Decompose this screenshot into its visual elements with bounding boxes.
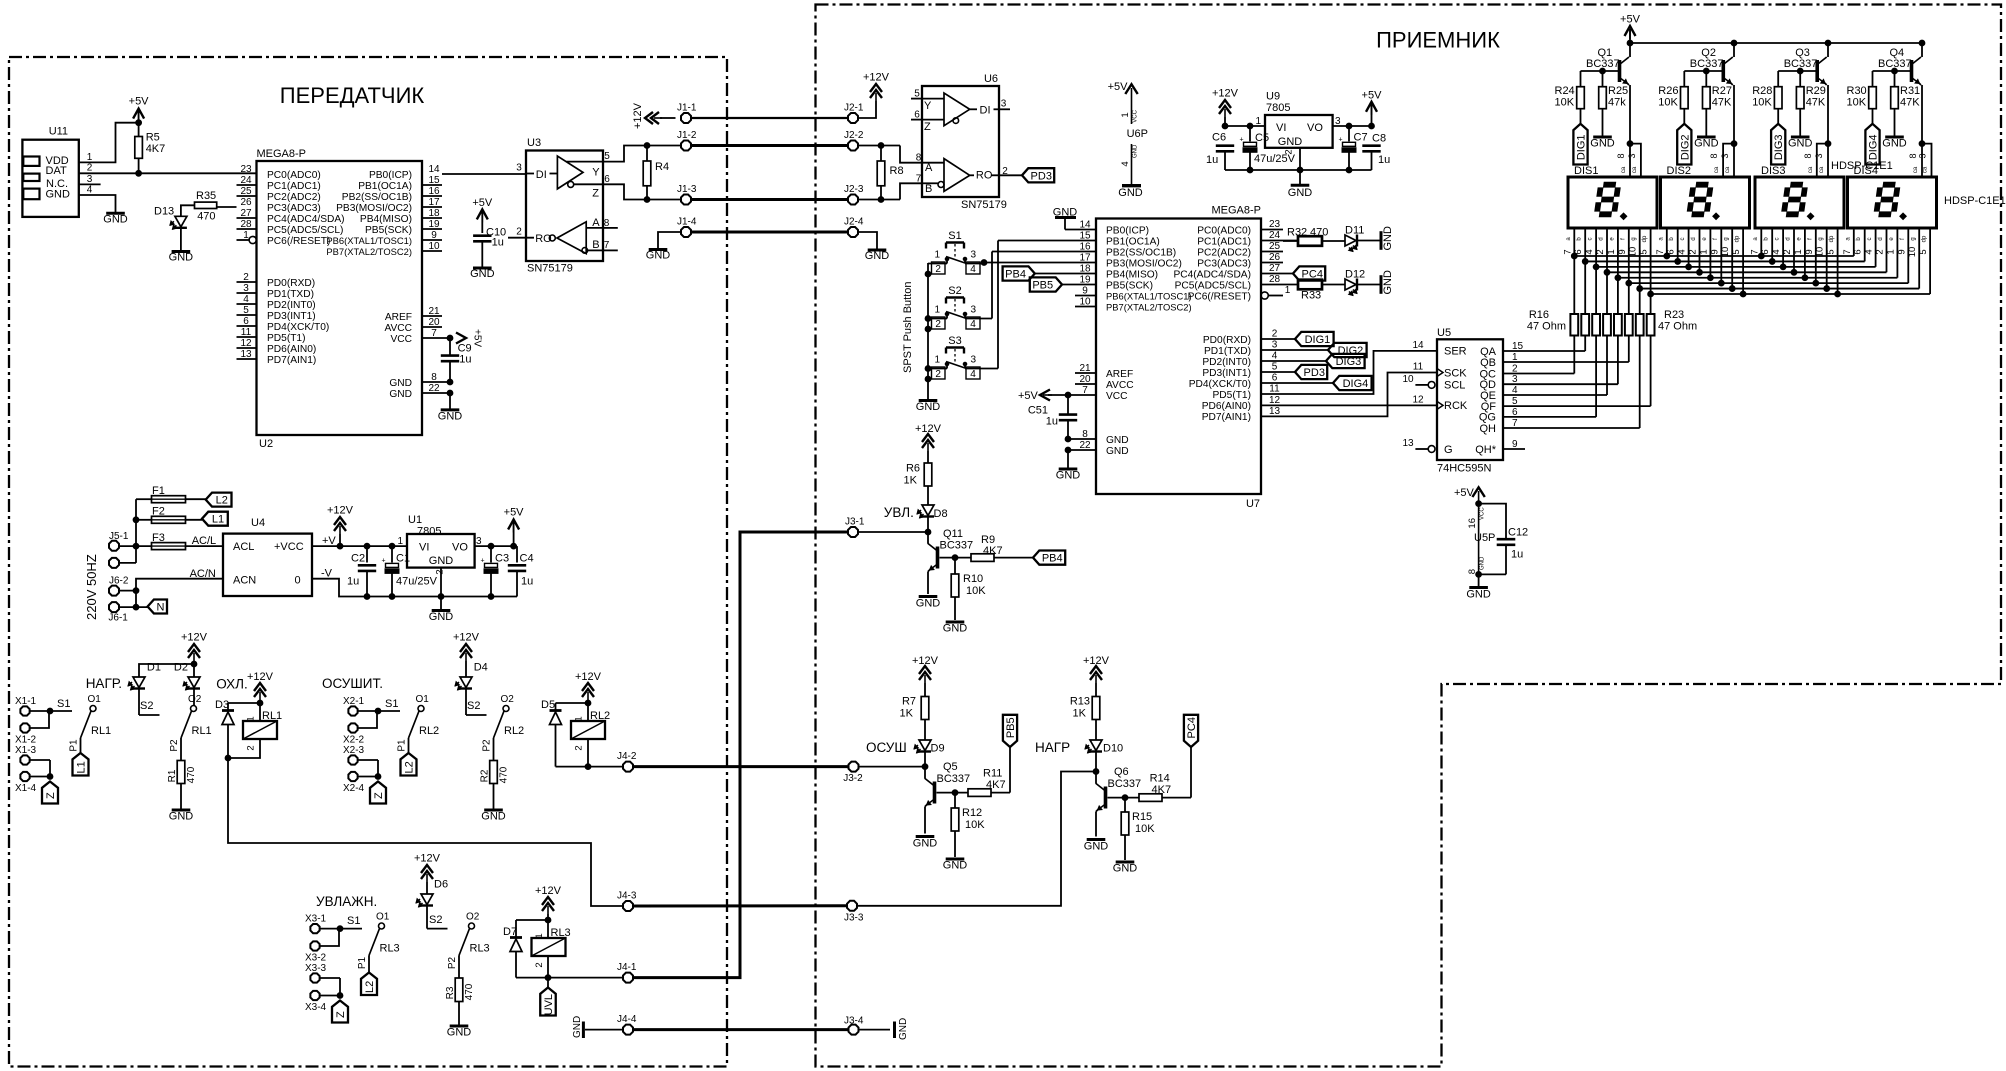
node +5V rail Q2 xyxy=(1731,40,1737,46)
svg-text:R10: R10 xyxy=(963,573,983,585)
node bus/DIS1 xyxy=(1593,264,1599,270)
display DIS1 segment pin 1 xyxy=(1617,228,1619,314)
svg-text:4: 4 xyxy=(1677,249,1688,254)
diode D5 xyxy=(541,699,562,767)
bus wire J1-1 to J2-1 xyxy=(692,117,848,119)
wire RL1 pin2 xyxy=(228,739,260,758)
svg-text:N: N xyxy=(156,602,164,614)
LED D12 xyxy=(1345,269,1381,296)
svg-text:GND: GND xyxy=(1882,138,1907,150)
svg-text:PB3(MOSI/OC2): PB3(MOSI/OC2) xyxy=(1106,258,1182,269)
resistor R30 10K xyxy=(1847,71,1877,124)
svg-text:11: 11 xyxy=(1269,384,1280,395)
push button S2 xyxy=(928,252,992,331)
U5 pin 11 SCK xyxy=(1413,362,1467,380)
svg-text:S3: S3 xyxy=(948,335,961,347)
svg-text:R25: R25 xyxy=(1608,85,1628,97)
svg-text:J6-1: J6-1 xyxy=(108,613,128,624)
svg-text:R12: R12 xyxy=(962,807,982,819)
power +12V (J1-1 arrow) xyxy=(632,102,676,129)
flag PB4 (U7) xyxy=(1003,266,1035,280)
ground (R12) xyxy=(943,859,968,872)
svg-text:23: 23 xyxy=(240,164,252,175)
U3 receiver inputs A/B xyxy=(582,217,603,253)
display DIS4 digit 8 xyxy=(1874,182,1901,216)
svg-text:R2: R2 xyxy=(480,769,491,782)
svg-text:3: 3 xyxy=(1627,153,1637,158)
display DIS2 segment pin 2 xyxy=(1699,228,1701,272)
svg-text:X3-4: X3-4 xyxy=(305,1002,327,1013)
svg-text:X2-1: X2-1 xyxy=(343,696,365,707)
svg-text:O2: O2 xyxy=(501,694,515,705)
svg-text:QB: QB xyxy=(1480,357,1496,369)
resistor R29 47K xyxy=(1796,71,1826,137)
U5P pin 8 GND xyxy=(1467,556,1486,574)
LED D10 xyxy=(1085,740,1123,772)
U5 pin 15 QA xyxy=(1480,341,1523,358)
svg-text:2: 2 xyxy=(1688,249,1699,254)
svg-text:D8: D8 xyxy=(934,508,948,520)
U7 pin 27 PC4(ADC4/SDA) xyxy=(1173,263,1293,280)
display DIS3 HDSP-C1E1 box xyxy=(1755,165,1844,228)
svg-text:Z: Z xyxy=(924,121,931,133)
contact O2 (RL2) xyxy=(482,694,525,761)
svg-text:GND: GND xyxy=(169,811,194,823)
wire X1-1/2 join xyxy=(31,710,51,712)
wire U11 GND xyxy=(79,195,116,213)
svg-text:+12V: +12V xyxy=(1212,88,1239,100)
svg-text:7805: 7805 xyxy=(417,526,441,538)
svg-text:J6-2: J6-2 xyxy=(109,575,129,586)
svg-text:U3: U3 xyxy=(527,137,541,149)
svg-text:J5-1: J5-1 xyxy=(109,531,129,542)
svg-text:PD4(XCK/T0): PD4(XCK/T0) xyxy=(1189,379,1251,390)
svg-text:+V: +V xyxy=(322,535,336,547)
flag PD3 (U6 output) xyxy=(1022,168,1054,182)
svg-text:14: 14 xyxy=(428,164,440,175)
U2 pin 25 PC2(ADC2) xyxy=(237,186,321,203)
svg-text:C2: C2 xyxy=(351,553,365,565)
connector X1-3 xyxy=(15,745,37,765)
resistor R11 4K7 xyxy=(968,768,1010,797)
svg-text:S2: S2 xyxy=(948,285,961,297)
svg-text:1u: 1u xyxy=(1046,416,1058,428)
transistor Q4 BC337 xyxy=(1878,47,1921,85)
wire R35 to D13 xyxy=(181,205,195,216)
connector X1-1 xyxy=(15,696,37,716)
ground (buttons) xyxy=(916,401,941,413)
U7 pin 20 AVCC xyxy=(1075,374,1134,391)
svg-text:PB0(ICP): PB0(ICP) xyxy=(369,170,412,181)
display DIS3 segment pin 6 xyxy=(1771,228,1773,261)
svg-text:X3-1: X3-1 xyxy=(305,914,327,925)
svg-text:ca: ca xyxy=(1913,166,1919,173)
resistor R31 47K xyxy=(1891,71,1921,137)
svg-text:J2-2: J2-2 xyxy=(844,130,864,141)
U2 pin 23 PC0(ADC0) xyxy=(240,164,320,181)
svg-text:GND: GND xyxy=(46,189,71,201)
svg-text:PB5: PB5 xyxy=(1005,717,1017,738)
connector X2-4 xyxy=(343,772,365,794)
svg-text:2: 2 xyxy=(574,745,585,750)
svg-text:2: 2 xyxy=(246,745,257,750)
flag DIG3 (display select) xyxy=(1771,124,1785,165)
svg-text:D5: D5 xyxy=(541,699,555,711)
svg-text:7: 7 xyxy=(1842,249,1853,254)
connector J6-2 xyxy=(109,575,136,595)
node rail C7 xyxy=(1346,167,1352,173)
power +12V (D1/D2) xyxy=(181,632,208,678)
svg-text:10: 10 xyxy=(1402,374,1414,385)
resistor R9 4K7 xyxy=(971,534,1033,561)
ground (Q6) xyxy=(1084,840,1109,853)
U5 pin 1 QB xyxy=(1480,352,1518,369)
flag N (J6-1) xyxy=(148,600,167,614)
U2 pin 6 PD4(XCK/T0) xyxy=(237,316,330,333)
svg-text:3: 3 xyxy=(971,355,977,366)
svg-text:47K: 47K xyxy=(1900,97,1920,109)
wire J2-2 to R8/A xyxy=(859,145,901,147)
svg-text:1: 1 xyxy=(397,536,403,547)
svg-text:ACN: ACN xyxy=(233,574,256,586)
contact O2 (RL1) xyxy=(169,694,212,761)
svg-text:PC6(/RESET): PC6(/RESET) xyxy=(267,236,330,247)
transmitter boundary (dash-dot frame) xyxy=(9,57,727,1067)
svg-text:+5V: +5V xyxy=(1108,81,1129,93)
receiver boundary (dash-dot frame) xyxy=(816,5,2002,1067)
wire Q4 emitter to display CA xyxy=(1921,85,1923,144)
svg-text:PD4(XCK/T0): PD4(XCK/T0) xyxy=(267,322,329,333)
ground (J3-4, rotated) xyxy=(895,1018,910,1040)
node X1 Z xyxy=(47,774,53,780)
display DIS4 segment pin 5 xyxy=(1929,228,1931,294)
wire U7 PD6 to U5 RCK xyxy=(1261,404,1437,406)
svg-text:1: 1 xyxy=(1285,285,1291,296)
wire X2-1/2 join xyxy=(359,710,379,712)
node bus/DIS1 xyxy=(1571,253,1577,259)
svg-text:GND: GND xyxy=(1288,187,1313,199)
bus wire J1-4 to J2-4 xyxy=(692,231,848,234)
node F2 junction xyxy=(133,517,139,523)
svg-text:GND: GND xyxy=(1382,270,1394,295)
svg-text:dp: dp xyxy=(1829,235,1835,242)
svg-text:D11: D11 xyxy=(1345,225,1364,237)
svg-text:+12V: +12V xyxy=(1083,655,1110,667)
svg-text:ca: ca xyxy=(1632,166,1638,173)
svg-text:C12: C12 xyxy=(1508,527,1528,539)
relay coil RL1 xyxy=(243,710,282,751)
U9 bottom rail xyxy=(1225,169,1372,171)
U6 RO output line xyxy=(970,170,999,182)
flag DIG2 xyxy=(1328,343,1367,357)
wire R20 to U5 QD xyxy=(1617,336,1619,385)
svg-text:Z: Z xyxy=(373,792,385,799)
svg-text:SCL: SCL xyxy=(1444,380,1465,392)
svg-text:A: A xyxy=(925,162,933,174)
connector X3-2 xyxy=(305,941,327,963)
power +12V (RL2 coil) xyxy=(575,671,602,721)
svg-text:J1-2: J1-2 xyxy=(677,130,697,141)
svg-text:7: 7 xyxy=(916,174,922,185)
svg-text:GND: GND xyxy=(1084,841,1109,853)
capacitor C2 xyxy=(347,546,376,596)
capacitor C7 47u xyxy=(1339,126,1368,170)
display DIS3 digit 8 xyxy=(1781,182,1808,216)
regulator U9 7805 box xyxy=(1265,91,1333,148)
power +12V (RL3 coil) xyxy=(535,885,562,938)
node R8 top xyxy=(878,143,884,149)
svg-text:1: 1 xyxy=(934,355,940,366)
svg-text:GND: GND xyxy=(1466,589,1491,601)
U7 pin 14 PB0(ICP) xyxy=(1065,220,1149,237)
svg-text:RL2: RL2 xyxy=(419,725,439,737)
svg-text:RL1: RL1 xyxy=(192,725,212,737)
display DIS2 segment pin 1 xyxy=(1709,228,1711,278)
svg-text:2: 2 xyxy=(87,163,93,174)
contact O1 (RL1) xyxy=(69,694,112,753)
resistor R25 47K xyxy=(1599,71,1628,137)
resistor R6 1K xyxy=(904,463,932,506)
power +12V (RL1 coil) xyxy=(247,671,274,721)
svg-text:Q6: Q6 xyxy=(1114,766,1129,778)
svg-text:GND: GND xyxy=(943,860,968,872)
U7 pin 19 PB5(SCK) xyxy=(1062,275,1153,292)
svg-text:e: e xyxy=(1889,237,1895,241)
svg-text:PC0(ADC0): PC0(ADC0) xyxy=(1197,225,1251,236)
svg-text:c: c xyxy=(1775,238,1781,241)
svg-text:DIG1: DIG1 xyxy=(1576,134,1588,160)
svg-text:D10: D10 xyxy=(1103,743,1123,755)
capacitor C10 xyxy=(472,197,506,268)
connector X3-4 xyxy=(305,991,327,1013)
svg-text:PB4: PB4 xyxy=(1005,269,1026,281)
resistor R2 470 xyxy=(480,761,510,811)
svg-text:GND: GND xyxy=(898,1018,909,1040)
svg-text:47u/25V: 47u/25V xyxy=(1254,153,1296,165)
wire Q4 base network xyxy=(1873,70,1912,72)
svg-text:PD3: PD3 xyxy=(1031,170,1052,182)
display DIS3 segment pin 7 xyxy=(1760,228,1762,256)
U11 pin numbers xyxy=(87,152,93,196)
U2 pin 1 PC6(/RESET) xyxy=(237,230,331,247)
connector J2-3 xyxy=(844,184,864,204)
segment bus line 4 xyxy=(1607,271,1887,273)
U2 pin 9 PB6(XTAL1/TOSC1) xyxy=(326,230,442,246)
svg-text:Z: Z xyxy=(335,1011,347,1018)
connector J4-3 xyxy=(617,891,637,911)
svg-text:5: 5 xyxy=(604,151,610,162)
svg-text:PB6(XTAL1/TOSC1): PB6(XTAL1/TOSC1) xyxy=(1106,290,1192,301)
U2 pin 19 PB5(SCK) xyxy=(365,219,442,236)
ground (R10) xyxy=(943,622,968,635)
ground (U7 PB0) xyxy=(1053,207,1078,230)
wire R18 to U5 QG xyxy=(1595,336,1597,417)
svg-text:GND: GND xyxy=(103,214,128,226)
capacitor C1 47u/25V xyxy=(382,546,438,596)
svg-text:PD7(AIN1): PD7(AIN1) xyxy=(1202,412,1251,423)
connector J4-4 xyxy=(617,1014,637,1034)
svg-text:MEGA8-P: MEGA8-P xyxy=(257,148,307,160)
node C3 bottom xyxy=(488,594,494,600)
ground (U6P) xyxy=(1118,186,1143,199)
svg-text:DIS3: DIS3 xyxy=(1761,165,1785,177)
svg-text:AREF: AREF xyxy=(385,312,412,323)
node U5P top xyxy=(1476,501,1482,507)
contact O2 (RL3) xyxy=(447,912,490,979)
svg-text:b: b xyxy=(1856,237,1862,241)
svg-text:PB3(MOSI/OC2): PB3(MOSI/OC2) xyxy=(336,203,412,214)
wire Q3 base network xyxy=(1778,70,1817,72)
svg-text:O1: O1 xyxy=(376,912,390,923)
svg-text:d: d xyxy=(1599,237,1605,240)
wire U9 VO rail xyxy=(1333,125,1372,127)
node Q2 emitter split xyxy=(1731,141,1737,147)
svg-text:DIG3: DIG3 xyxy=(1773,134,1785,160)
svg-text:b: b xyxy=(1764,237,1770,241)
svg-text:GND: GND xyxy=(438,410,463,422)
display DIS3 segment pin 5 xyxy=(1837,228,1839,294)
transistor Q5 BC337 xyxy=(925,761,970,807)
svg-text:14: 14 xyxy=(1412,340,1424,351)
display DIS2 HDSP-C1E1 box xyxy=(1661,165,1750,228)
node Q11 base/R10 xyxy=(952,555,958,561)
svg-text:5: 5 xyxy=(914,89,920,100)
U2 pin 15 PB1(OC1A) xyxy=(358,175,442,192)
svg-text:C3: C3 xyxy=(495,553,509,565)
power +12V (D4) xyxy=(453,632,480,678)
U5 pin 2 QC xyxy=(1480,364,1519,381)
wire +12V rail to U9 xyxy=(1225,125,1265,127)
svg-text:2: 2 xyxy=(935,264,941,275)
node R5/DAT junction xyxy=(136,170,142,176)
node bus/DIS1 xyxy=(1604,269,1610,275)
svg-text:X1-2: X1-2 xyxy=(15,735,37,746)
+5V rail (displays) xyxy=(1630,42,1922,44)
LED D8 xyxy=(917,505,948,532)
wire S1 contact (RL3) xyxy=(340,928,362,930)
connector J2-1 xyxy=(844,103,864,123)
svg-text:2: 2 xyxy=(1782,249,1793,254)
svg-text:+: + xyxy=(1339,136,1343,143)
U6 receiver amp (triangle) xyxy=(922,159,970,195)
svg-text:dp: dp xyxy=(1922,235,1928,242)
svg-text:1u: 1u xyxy=(1511,549,1523,561)
svg-text:PD2(INT0): PD2(INT0) xyxy=(267,300,316,311)
svg-text:U7: U7 xyxy=(1246,498,1260,510)
svg-text:PD3(INT1): PD3(INT1) xyxy=(267,311,316,322)
wire X3-1/2 join xyxy=(321,928,341,930)
svg-text:AVCC: AVCC xyxy=(384,323,412,334)
svg-text:10K: 10K xyxy=(965,819,985,831)
svg-text:D2: D2 xyxy=(174,662,188,674)
U7 pin 4 PD2(INT0) xyxy=(1202,351,1326,368)
node bus/DIS3 xyxy=(1813,280,1819,286)
node Q5 base/R12 xyxy=(952,790,958,796)
U7 pin 16 PB2(SS/OC1B) xyxy=(992,242,1176,259)
svg-text:ОСУШИТ.: ОСУШИТ. xyxy=(322,676,383,691)
power +5V (U7 VCC) xyxy=(1018,390,1052,403)
display DIS1 segment pin 9 xyxy=(1628,228,1630,314)
svg-text:L2: L2 xyxy=(404,761,416,773)
resistor R12 10K xyxy=(951,793,985,857)
U3 DI input line xyxy=(526,173,534,175)
svg-text:HDSP-C1E1: HDSP-C1E1 xyxy=(1944,195,2006,207)
node +12V junction xyxy=(337,543,343,549)
wire Q2 emitter to display CA xyxy=(1733,85,1735,144)
display DIS3 segment pin 10 xyxy=(1826,228,1828,289)
svg-text:GND: GND xyxy=(389,389,412,400)
wire RL2 pin2 to J4-2 xyxy=(588,739,623,767)
svg-text:PD6(AIN0): PD6(AIN0) xyxy=(1202,401,1251,412)
svg-text:PB2(SS/OC1B): PB2(SS/OC1B) xyxy=(342,192,412,203)
svg-text:Z: Z xyxy=(592,188,599,200)
wire display CA pins xyxy=(1922,144,1932,177)
svg-text:470: 470 xyxy=(197,210,215,222)
ground (J1-4) xyxy=(646,250,671,262)
U2 pin 7 VCC xyxy=(390,328,450,345)
svg-text:1: 1 xyxy=(1885,249,1896,254)
display DIS3 segment pin 2 xyxy=(1793,228,1795,272)
svg-text:10K: 10K xyxy=(1658,97,1678,109)
U6 driver amp (triangle) xyxy=(922,93,970,133)
svg-text:G: G xyxy=(1444,444,1453,456)
display DIS1 segment pin 7 xyxy=(1573,228,1575,314)
node bus/DIS1 xyxy=(1648,291,1654,297)
svg-text:D1: D1 xyxy=(147,662,161,674)
svg-text:PB1(OC1A): PB1(OC1A) xyxy=(358,181,412,192)
wire J2-4 to ground xyxy=(859,232,878,250)
power +5V (U5P) xyxy=(1454,487,1485,574)
node D5 bottom xyxy=(585,764,591,770)
svg-text:УВЛАЖН.: УВЛАЖН. xyxy=(316,894,377,909)
wire X3-3/4 join xyxy=(321,977,341,979)
svg-text:U11: U11 xyxy=(49,125,68,137)
svg-text:J2-1: J2-1 xyxy=(844,103,864,114)
svg-text:PC0(ADC0): PC0(ADC0) xyxy=(267,170,321,181)
svg-text:R3: R3 xyxy=(445,986,456,999)
flag UVL xyxy=(540,978,556,1016)
U3 receiver amp (triangle) xyxy=(549,222,586,254)
U7 pin 7 VCC xyxy=(1048,385,1128,402)
wire RL3 pin2 to J4-1 xyxy=(548,956,623,978)
svg-text:X1-3: X1-3 xyxy=(15,745,37,756)
svg-text:X2-3: X2-3 xyxy=(343,745,365,756)
svg-text:Q11: Q11 xyxy=(943,528,963,540)
node X2 S1 xyxy=(375,708,381,714)
segment bus line 8 xyxy=(1651,293,1931,295)
U3 pin 8 (A) stub xyxy=(603,227,618,229)
U7 pin 5 PD3(INT1) xyxy=(1202,362,1295,379)
power +5V (U9 output) xyxy=(1362,89,1383,126)
svg-text:a: a xyxy=(1658,237,1664,241)
svg-text:6: 6 xyxy=(1853,249,1864,254)
resistor R5 xyxy=(135,132,165,174)
ground (U1) xyxy=(429,611,454,624)
svg-text:1K: 1K xyxy=(904,475,918,487)
node Q3 emitter split xyxy=(1825,141,1831,147)
flag DIG1 (display select) xyxy=(1573,124,1587,165)
node U1 GND/rail xyxy=(438,594,444,600)
U7 pin 15 PB1(OC1A) xyxy=(998,231,1160,248)
svg-text:ПЕРЕДАТЧИК: ПЕРЕДАТЧИК xyxy=(280,83,425,108)
node C51/GND22 xyxy=(1065,447,1071,453)
svg-text:5: 5 xyxy=(1918,249,1929,254)
U2 pin 3 PD1(TXD) xyxy=(237,283,314,300)
connector J2-2 xyxy=(844,130,864,150)
wire R16 to U5 QC xyxy=(1573,336,1575,374)
node +5V rail Q4 xyxy=(1919,40,1925,46)
svg-text:R29: R29 xyxy=(1806,85,1826,97)
